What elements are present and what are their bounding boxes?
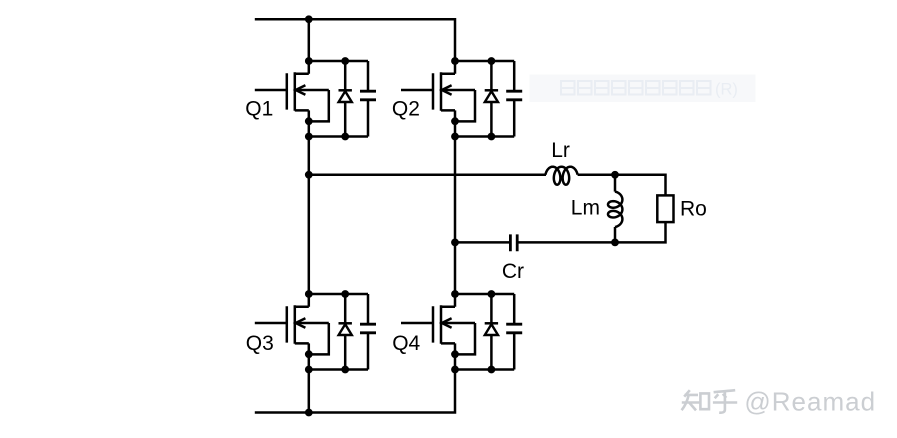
svg-text:@Reamad: @Reamad (744, 386, 876, 416)
svg-text:Cr: Cr (502, 260, 524, 283)
svg-text:Ro: Ro (680, 198, 707, 221)
svg-text:Q2: Q2 (392, 97, 420, 120)
svg-text:Q3: Q3 (246, 332, 274, 355)
svg-text:Lr: Lr (551, 139, 570, 162)
svg-text:Q1: Q1 (245, 97, 273, 120)
svg-text:Q4: Q4 (392, 332, 420, 355)
svg-text:Lm: Lm (571, 197, 600, 220)
svg-text:(R): (R) (715, 81, 738, 99)
